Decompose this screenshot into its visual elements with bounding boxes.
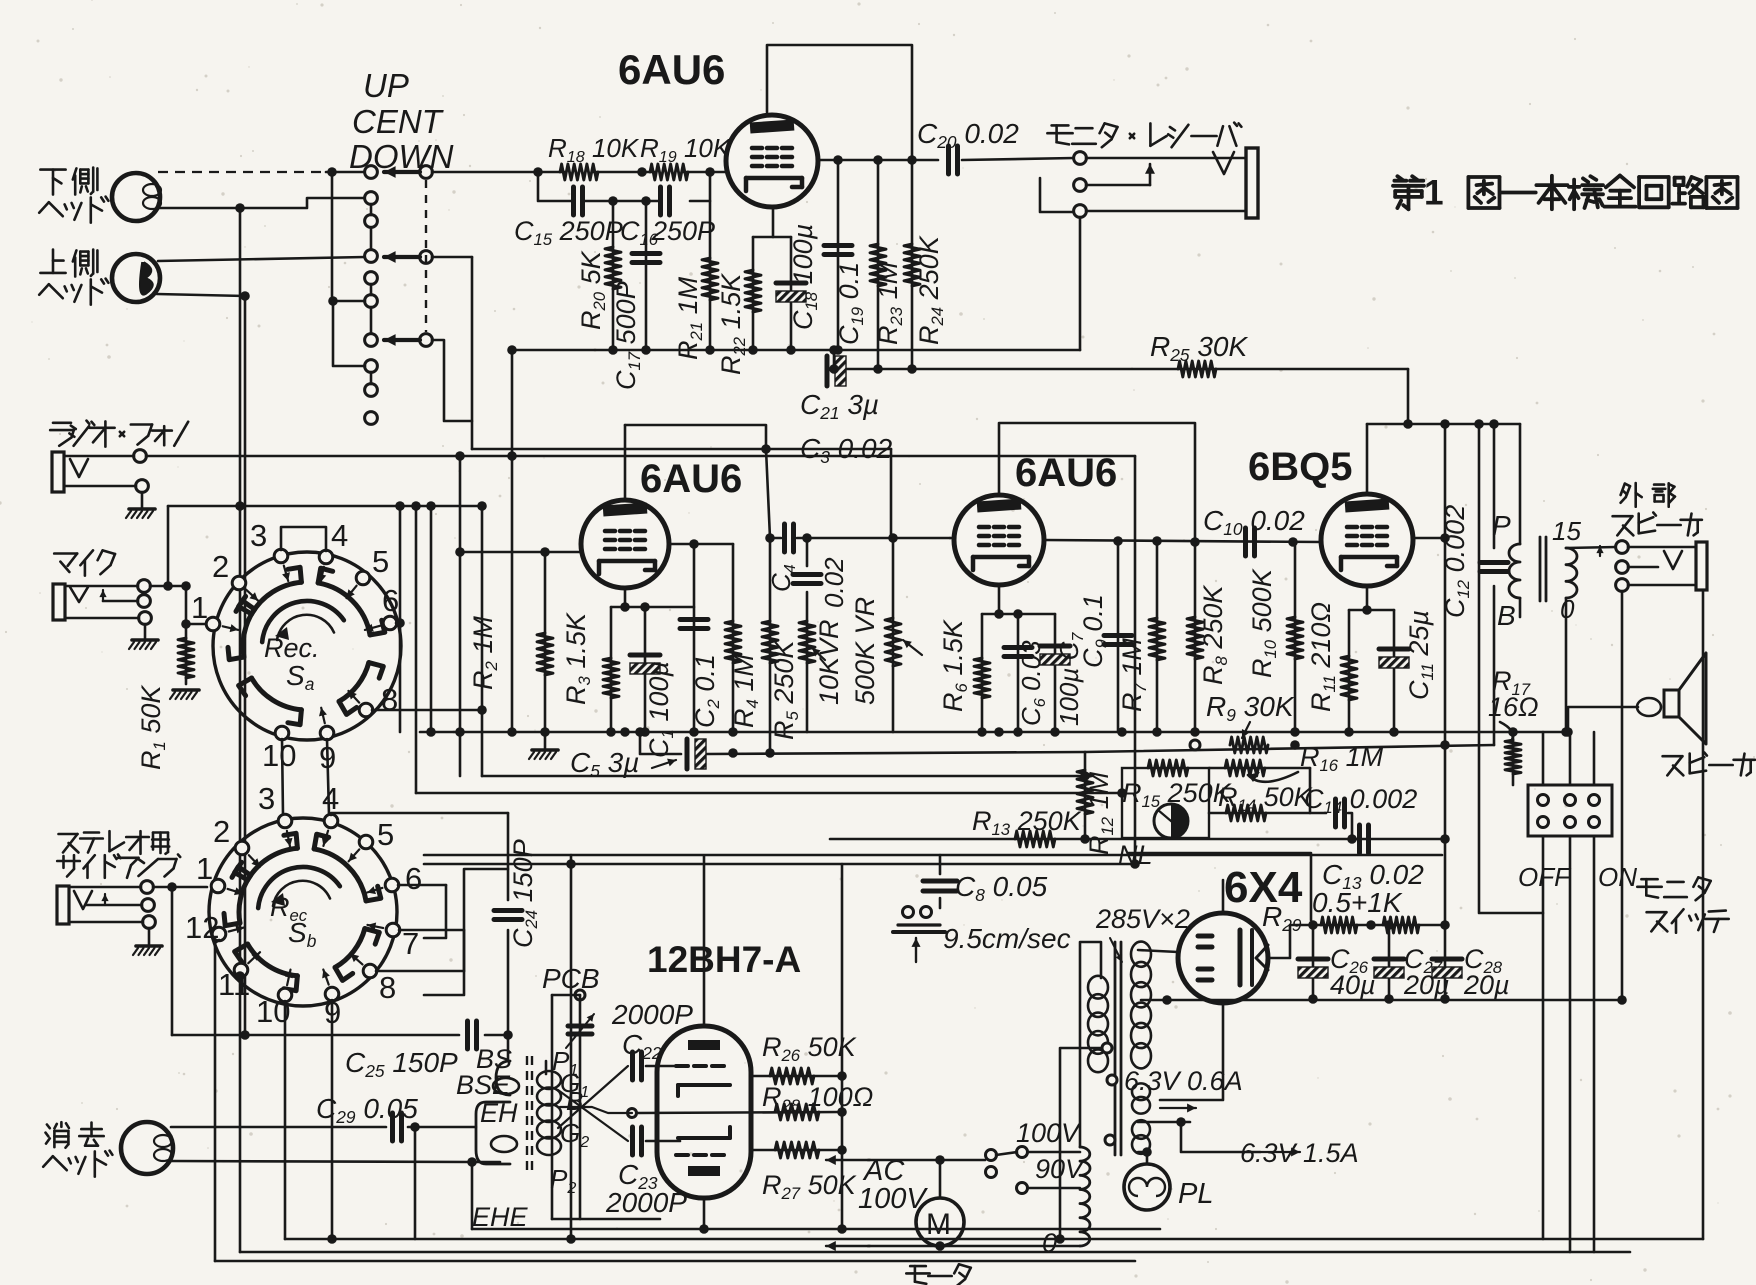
svg-text:R2 1M: R2 1M xyxy=(468,616,501,690)
wire Sa c3-c4 bridge xyxy=(281,527,326,551)
wire contact link a xyxy=(370,204,373,215)
svg-text:C18 100µ: C18 100µ xyxy=(788,224,821,330)
label ステレオ用サイドアンプ xyxy=(59,833,78,836)
svg-text:C6 0.03: C6 0.03 xyxy=(1016,640,1049,726)
wire C15 branch down xyxy=(538,172,572,201)
wire nest v x446 xyxy=(424,885,446,938)
junction xyxy=(935,1241,945,1251)
wire ext sleeve down xyxy=(1621,591,1624,1000)
junction xyxy=(837,1107,847,1117)
wire C16 up xyxy=(690,172,710,201)
junction xyxy=(907,155,917,165)
wire R25 to B+ drop xyxy=(1407,369,1410,424)
wire R26 line xyxy=(751,1075,842,1078)
wire dashed gang line xyxy=(425,180,427,332)
wire contact link b xyxy=(370,284,373,295)
wire C4 vertical xyxy=(806,538,809,566)
neon lamp NL xyxy=(1154,804,1188,838)
wire C8 lower xyxy=(939,898,942,908)
svg-text:5: 5 xyxy=(372,544,389,579)
svg-text:10KVR: 10KVR xyxy=(814,619,844,705)
capacitor C23 2000P xyxy=(630,1127,635,1155)
wire switch drop xyxy=(1542,836,1545,1239)
svg-text:R10 500K: R10 500K xyxy=(1247,568,1280,678)
junction xyxy=(1130,859,1140,869)
wire R6 vertical xyxy=(981,614,984,732)
svg-text:6: 6 xyxy=(382,583,399,618)
junction xyxy=(1366,920,1376,930)
svg-text:R20 5K: R20 5K xyxy=(576,250,609,330)
svg-text:4: 4 xyxy=(331,518,348,553)
junction xyxy=(1190,727,1200,737)
svg-text:20µ: 20µ xyxy=(1463,970,1510,1000)
junction xyxy=(235,971,245,981)
junction xyxy=(163,581,173,591)
wire C9 vertical xyxy=(1117,541,1120,732)
wire P1 lead xyxy=(545,1061,548,1074)
label 上側ヘッド xyxy=(52,250,55,273)
wire switch drop xyxy=(1569,836,1572,1252)
svg-text:500K VR: 500K VR xyxy=(850,597,880,705)
capacitor C16 xyxy=(658,187,663,215)
wire Sa box top xyxy=(168,505,482,508)
wire R20 vertical xyxy=(612,201,615,350)
wire phono gnd stub xyxy=(141,492,144,508)
wire cathode node3 xyxy=(982,613,1055,616)
monitor receiver jack xyxy=(1074,152,1087,165)
resistor R18 xyxy=(560,164,598,180)
svg-text:3: 3 xyxy=(250,518,267,553)
svg-text:PL: PL xyxy=(1178,1178,1213,1210)
wire cathode node2 xyxy=(611,606,694,609)
wire C8 vertical xyxy=(939,855,942,874)
wire heater 1 xyxy=(1138,1121,1190,1124)
junction xyxy=(1080,834,1090,844)
svg-text:R13 250K: R13 250K xyxy=(972,806,1082,839)
wire phono vertical x1135 xyxy=(1134,456,1137,864)
svg-text:2000P: 2000P xyxy=(611,999,693,1030)
svg-text:R9 30K: R9 30K xyxy=(1206,691,1295,725)
wire R3 vertical xyxy=(610,607,613,732)
wire primary top xyxy=(1080,942,1101,1147)
wire PCB box bottom xyxy=(552,1218,660,1221)
wire C3 out xyxy=(797,537,950,540)
junction xyxy=(328,296,338,306)
label スピーカ xyxy=(1663,755,1683,758)
svg-text:OFF: OFF xyxy=(1518,862,1572,892)
junction xyxy=(833,345,843,355)
6.3V 1.5A winding xyxy=(1132,1120,1150,1139)
wire 6X4 top xyxy=(1222,880,1225,913)
tube V4 6BQ5 xyxy=(1321,494,1413,586)
motor wires and speed switch xyxy=(826,1159,870,1161)
svg-text:6: 6 xyxy=(405,861,422,896)
junction xyxy=(1403,419,1413,429)
wire 6BQ5 top cap xyxy=(1366,424,1369,494)
svg-text:BSE: BSE xyxy=(456,1070,511,1100)
svg-text:C29 0.05: C29 0.05 xyxy=(316,1093,418,1127)
wire R2 vertical xyxy=(544,552,547,732)
svg-text:R4 1M: R4 1M xyxy=(729,654,762,728)
wire motor top line xyxy=(868,1159,985,1162)
wire upper bus y350 xyxy=(512,349,1080,352)
switch wiper arrows xyxy=(420,166,433,179)
junction xyxy=(728,727,738,737)
svg-text:C20 0.02: C20 0.02 xyxy=(917,118,1019,152)
wire Sa box left xyxy=(167,506,170,586)
junction xyxy=(1152,727,1162,737)
junction xyxy=(1440,994,1450,1004)
junction xyxy=(620,602,630,612)
wire C15-C16 link xyxy=(585,200,659,203)
junction xyxy=(1344,727,1354,737)
junction xyxy=(1290,740,1300,750)
wire C21 stub xyxy=(833,350,836,369)
svg-text:R25 30K: R25 30K xyxy=(1150,331,1248,365)
wire 6X4 out xyxy=(1268,925,1310,958)
svg-text:16Ω: 16Ω xyxy=(1488,692,1539,722)
wire main bus y732 xyxy=(420,731,1568,734)
junction xyxy=(1080,771,1090,781)
wire heater arrow line xyxy=(1181,1122,1260,1152)
svg-text:1: 1 xyxy=(1424,173,1444,212)
external speaker jack xyxy=(1616,541,1629,554)
junction xyxy=(1384,920,1394,930)
junction xyxy=(635,727,645,737)
junction xyxy=(641,196,651,206)
junction xyxy=(640,602,650,612)
wire sec 0 down xyxy=(1565,598,1568,732)
wire R10 vertical xyxy=(1294,542,1297,732)
wire mic to Sa c1 xyxy=(186,623,207,626)
wire Sa c9 to Sb c4 xyxy=(327,739,329,815)
wire contact 8 stub xyxy=(333,301,365,366)
wire C7 vertical xyxy=(1054,614,1057,732)
junction xyxy=(802,533,812,543)
wire switch feed xyxy=(1593,732,1596,785)
junction xyxy=(503,1030,513,1040)
wire plate to C3 xyxy=(770,537,781,540)
junction xyxy=(1290,727,1300,737)
junction xyxy=(235,501,245,511)
svg-text:R8 250K: R8 250K xyxy=(1198,585,1231,685)
wire R11 vertical xyxy=(1348,610,1351,732)
svg-text:6AU6: 6AU6 xyxy=(1015,451,1117,495)
wire nest v x464 xyxy=(424,930,464,995)
wire C24 vertical xyxy=(507,813,510,900)
wire R23 vertical xyxy=(877,160,880,369)
junction xyxy=(833,155,843,165)
wire C27 vertical xyxy=(1388,925,1391,999)
wire C29 drop xyxy=(414,1127,417,1239)
wire Sb c8 lead xyxy=(376,970,464,973)
wire switch feed xyxy=(1569,732,1572,785)
junction xyxy=(540,547,550,557)
junction xyxy=(765,533,775,543)
wire vertical x460 xyxy=(459,456,462,776)
svg-text:2000P: 2000P xyxy=(605,1187,687,1218)
junction xyxy=(1117,727,1127,737)
wire OPT P lead xyxy=(1519,424,1522,544)
svg-text:C1 100µ: C1 100µ xyxy=(644,661,677,758)
junction xyxy=(410,1122,420,1132)
label モータ xyxy=(910,1265,926,1268)
title text 第1図 本機全回路図 xyxy=(1397,176,1402,180)
junction xyxy=(181,619,191,629)
wire C22 to tube xyxy=(646,1065,680,1068)
wire B+ right y424 xyxy=(1367,423,1520,426)
capacitor C10 0.02 xyxy=(1243,528,1248,556)
svg-text:R21 1M: R21 1M xyxy=(673,276,706,360)
svg-text:6.3V 0.6A: 6.3V 0.6A xyxy=(1124,1066,1243,1096)
wire bottom bus 1 xyxy=(285,1238,1703,1241)
svg-text:5: 5 xyxy=(377,817,394,852)
wire switch drop xyxy=(1593,836,1596,1252)
wire EHE drop xyxy=(471,1162,474,1229)
wire R12 vertical xyxy=(1084,752,1087,839)
resistor R25 30K xyxy=(1178,361,1216,377)
wire vertical x431 xyxy=(430,506,433,732)
power transformer xyxy=(1114,942,1117,1155)
svg-text:EH: EH xyxy=(480,1098,518,1128)
wire vertical x472 xyxy=(471,257,474,449)
junction xyxy=(1162,995,1172,1005)
svg-text:C24 150P: C24 150P xyxy=(508,839,541,948)
svg-text:100V: 100V xyxy=(858,1183,928,1215)
svg-text:C19 0.1: C19 0.1 xyxy=(834,262,867,345)
svg-text:C21 3µ: C21 3µ xyxy=(800,389,879,423)
wire 500KVR vertical xyxy=(892,538,895,732)
junction xyxy=(1055,1234,1065,1244)
svg-text:R28 100Ω: R28 100Ω xyxy=(762,1082,873,1115)
tube V1 6AU6 xyxy=(726,115,818,207)
wire Sb c9 drop xyxy=(331,1000,334,1239)
junction xyxy=(837,1224,847,1234)
junction xyxy=(620,727,630,737)
junction xyxy=(533,167,543,177)
speaker xyxy=(1664,690,1679,717)
junction xyxy=(426,727,436,737)
wire HV top to 6X4 xyxy=(1138,950,1178,952)
motor M xyxy=(916,1198,964,1246)
junction xyxy=(540,727,550,737)
wire erase top line xyxy=(171,1126,386,1129)
junction xyxy=(994,609,1004,619)
wire tube2 cathode xyxy=(624,588,627,607)
wire C6 vertical xyxy=(1017,614,1020,732)
wire R28 line xyxy=(637,1112,842,1113)
junction xyxy=(705,167,715,177)
wire bottom bus 4 xyxy=(472,1228,1160,1231)
wire lower head to switch dashed xyxy=(158,171,326,173)
svg-text:R6 1.5K: R6 1.5K xyxy=(938,619,971,712)
junction xyxy=(641,345,651,355)
junction xyxy=(873,364,883,374)
wire R13 line y839 xyxy=(830,838,1445,841)
wire 10KVR vertical xyxy=(806,592,809,732)
junction xyxy=(608,345,618,355)
rotary switch Sa xyxy=(213,552,401,740)
wire arrow3 feed xyxy=(432,340,472,421)
motor speed winding xyxy=(1080,1147,1090,1246)
wire R16 right drop xyxy=(1309,768,1312,813)
junction xyxy=(689,539,699,549)
wire lower head to switch xyxy=(326,171,365,174)
svg-text:R7 1M: R7 1M xyxy=(1117,638,1150,712)
svg-text:C10 0.02: C10 0.02 xyxy=(1203,505,1305,539)
junction xyxy=(1176,1117,1186,1127)
svg-text:1: 1 xyxy=(196,851,213,886)
wire cathode node4 xyxy=(1349,609,1394,612)
wire contact link c xyxy=(370,372,373,384)
junction xyxy=(455,727,465,737)
svg-text:CENT: CENT xyxy=(352,103,445,140)
label モニタスイッチ xyxy=(1641,878,1657,881)
junction xyxy=(637,167,647,177)
junction xyxy=(1117,788,1127,798)
svg-text:6.3V 1.5A: 6.3V 1.5A xyxy=(1240,1138,1359,1168)
label 外部スピーカ xyxy=(1621,484,1625,495)
wire tap 90V xyxy=(1028,1187,1080,1190)
junction xyxy=(705,345,715,355)
junction xyxy=(1489,419,1499,429)
junction xyxy=(235,203,245,213)
wire line y776 xyxy=(482,775,1085,778)
wire C14 step xyxy=(1348,813,1352,839)
capacitor C13 0.02 xyxy=(1357,825,1362,853)
wire R17 vertical xyxy=(1512,732,1515,785)
wire C29 to EH xyxy=(408,1126,476,1129)
wire R5 vertical xyxy=(769,538,772,754)
wire C24 lower xyxy=(507,930,510,1035)
junction xyxy=(1362,605,1372,615)
junction xyxy=(1347,834,1357,844)
resistor R19 xyxy=(650,164,688,180)
tube V2 6AU6 xyxy=(581,500,669,588)
wire R7 vertical xyxy=(1156,541,1159,732)
wire C25 line xyxy=(172,1034,459,1037)
wire 6X4 box xyxy=(1128,853,1311,920)
svg-text:R1 50K: R1 50K xyxy=(136,685,169,770)
wire C12 lower xyxy=(1493,586,1496,745)
wire tap 100V xyxy=(1028,1151,1080,1154)
wire vertical x400 xyxy=(399,506,402,732)
wire Sb c12 drop xyxy=(215,940,219,1261)
junction xyxy=(1013,609,1023,619)
wire C20 to monitor jack xyxy=(962,158,1074,160)
wire R27 line xyxy=(751,1149,842,1152)
svg-text:Rec.: Rec. xyxy=(264,633,320,663)
tube V6 6X4 xyxy=(1178,913,1268,1003)
svg-text:R19 10K: R19 10K xyxy=(640,133,732,166)
wire contact 6 stub xyxy=(333,300,365,303)
junction xyxy=(455,547,465,557)
wire R22 vertical xyxy=(752,237,755,350)
svg-text:EHE: EHE xyxy=(472,1202,529,1232)
wire Sb c6 lead xyxy=(398,884,446,887)
junction xyxy=(507,727,517,737)
svg-text:8: 8 xyxy=(379,970,396,1005)
wire 12BH7 top lead xyxy=(703,856,706,1026)
wire grid line mid xyxy=(592,171,656,174)
junction xyxy=(1142,1147,1152,1157)
wire vertical x512 xyxy=(511,350,514,732)
wire Sa c10 to Sb c3 xyxy=(282,739,283,815)
svg-text:285V×2: 285V×2 xyxy=(1095,904,1190,934)
svg-text:C17 500P: C17 500P xyxy=(611,281,644,390)
stereo side-amp jack xyxy=(57,886,69,924)
svg-text:6AU6: 6AU6 xyxy=(618,46,725,93)
junction xyxy=(507,345,517,355)
wire bottom bus 2 xyxy=(240,1251,1630,1254)
svg-text:1: 1 xyxy=(191,590,208,625)
svg-text:R16 1M: R16 1M xyxy=(1300,742,1384,775)
svg-text:100µ C7: 100µ C7 xyxy=(1054,632,1087,726)
6.3V 0.6A winding xyxy=(1132,1083,1150,1100)
wire 6BQ5 plate xyxy=(1412,537,1445,540)
svg-text:C25 150P: C25 150P xyxy=(345,1047,458,1081)
wire tube3 cathode xyxy=(998,585,1001,614)
svg-text:C3 0.02: C3 0.02 xyxy=(800,433,893,467)
wire 500KVR feed x891 xyxy=(890,449,893,538)
wire heater 2 xyxy=(1138,1152,1147,1164)
wire tube3 plate xyxy=(1044,540,1321,542)
junction xyxy=(608,196,618,206)
svg-text:P: P xyxy=(1492,510,1511,541)
junction xyxy=(1440,533,1450,543)
wire R8 vertical xyxy=(1194,543,1197,732)
junction xyxy=(689,727,699,737)
wire C23 to tube xyxy=(646,1140,680,1143)
wire top grid line xyxy=(432,171,566,174)
wire C19 vertical xyxy=(837,160,840,350)
svg-text:C9 0.1: C9 0.1 xyxy=(1078,594,1111,668)
wire PCB box left xyxy=(551,995,554,1219)
wire vertical x842 low xyxy=(841,1150,844,1229)
junction xyxy=(1013,727,1023,737)
svg-text:R12 1M: R12 1M xyxy=(1084,771,1117,855)
svg-text:0: 0 xyxy=(1560,594,1575,624)
wire tube3 top loop xyxy=(999,423,1195,543)
wire 12BH7 bottom lead xyxy=(703,1198,706,1229)
svg-text:C11 25µ: C11 25µ xyxy=(1404,610,1437,700)
wire mic gnd stub xyxy=(144,624,147,638)
svg-text:0: 0 xyxy=(1042,1228,1057,1258)
switch Sb contact arrows xyxy=(228,889,243,894)
wire C2 vertical xyxy=(693,544,696,732)
junction xyxy=(699,1224,709,1234)
oscillator transformer xyxy=(526,1056,528,1170)
junction xyxy=(829,364,839,374)
svg-text:M: M xyxy=(926,1208,951,1241)
wire PCB vertical xyxy=(579,995,582,1219)
wire grid to tube1 xyxy=(682,171,727,174)
junction xyxy=(935,1155,945,1165)
junction xyxy=(748,345,758,355)
svg-text:6BQ5: 6BQ5 xyxy=(1248,445,1353,489)
svg-text:2: 2 xyxy=(212,549,229,584)
erase head xyxy=(47,1125,50,1129)
junction xyxy=(873,155,883,165)
wire nest h y869 xyxy=(464,869,508,971)
wire tube2 plate right xyxy=(669,543,733,546)
wire tap cross connections xyxy=(558,1090,628,1141)
wire speaker lead xyxy=(1568,707,1638,732)
pilot lamp PL xyxy=(1124,1164,1170,1210)
capacitor C14 0.002 xyxy=(1333,799,1338,827)
wire vertical x482 xyxy=(481,506,484,776)
wire Sb c7 lead xyxy=(399,929,464,932)
